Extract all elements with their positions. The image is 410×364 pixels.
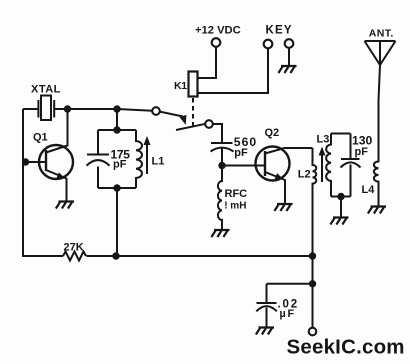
- svg-text:SeekIC.com: SeekIC.com: [287, 336, 405, 359]
- svg-text:27K: 27K: [64, 242, 84, 254]
- svg-text:L3: L3: [317, 133, 330, 145]
- svg-text:pF: pF: [234, 147, 248, 159]
- svg-text:pF: pF: [113, 159, 127, 171]
- svg-text:RFC: RFC: [225, 188, 248, 200]
- svg-text:KEY: KEY: [266, 25, 293, 37]
- svg-text:L2: L2: [298, 168, 311, 180]
- svg-text:XTAL: XTAL: [31, 84, 61, 96]
- svg-text:+12 VDC: +12 VDC: [195, 24, 241, 36]
- svg-text:L4: L4: [362, 184, 376, 196]
- svg-text:pF: pF: [355, 146, 369, 158]
- svg-text:Q1: Q1: [33, 132, 48, 144]
- svg-text:! mH: ! mH: [224, 200, 246, 211]
- svg-text:K1: K1: [174, 80, 187, 92]
- svg-text:L1: L1: [152, 156, 165, 168]
- svg-text:ANT.: ANT.: [369, 27, 394, 39]
- svg-text:Q2: Q2: [265, 127, 280, 139]
- svg-text:µF: µF: [280, 308, 296, 320]
